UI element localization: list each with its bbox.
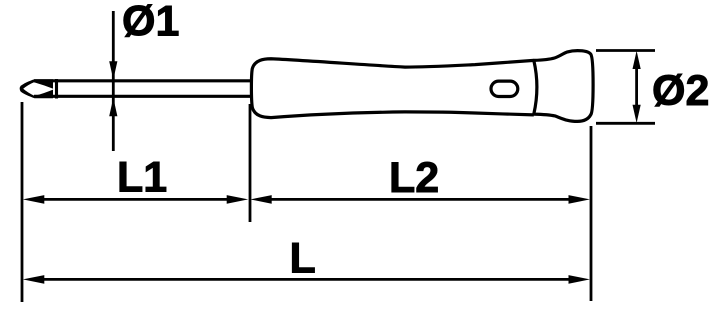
L dimension line	[38, 278, 575, 281]
right extension line	[590, 126, 593, 301]
handle oval hole	[491, 81, 518, 96]
L1 right arrowhead	[227, 195, 249, 204]
Ø2 lower arrowhead	[633, 105, 641, 123]
dimension Ø1 upper line	[112, 11, 115, 151]
left extension line	[21, 102, 24, 302]
svg-text:L2: L2	[389, 154, 439, 202]
L left arrowhead	[23, 275, 45, 284]
Ø2 bottom extension line	[596, 122, 655, 125]
middle extension line	[249, 104, 252, 222]
dimension Ø1 upper arrowhead	[109, 61, 117, 79]
Ø2 dimension line	[635, 66, 638, 108]
svg-text:L1: L1	[117, 154, 167, 202]
L right arrowhead	[569, 275, 591, 284]
L1 left arrowhead	[23, 195, 45, 204]
tip cross recess (white diamond)	[23, 82, 54, 96]
Ø2 upper arrowhead	[633, 51, 641, 69]
handle body	[251, 59, 533, 118]
screwdriver phillips tip (black)	[20, 79, 53, 98]
Ø2 top extension line	[596, 49, 655, 52]
svg-text:L: L	[290, 235, 316, 283]
dimension Ø1 lower arrowhead	[109, 98, 117, 116]
handle end cap	[534, 51, 593, 122]
tip ferrule bar	[55, 79, 58, 99]
L2 left arrowhead	[250, 195, 272, 204]
L2 right arrowhead	[569, 195, 591, 204]
svg-text:Ø2: Ø2	[652, 67, 709, 115]
shaft top line	[34, 79, 251, 82]
L1 dimension line	[38, 198, 233, 201]
shaft bottom line	[34, 95, 251, 98]
L2 dimension line	[265, 198, 575, 201]
svg-text:Ø1: Ø1	[122, 0, 179, 46]
